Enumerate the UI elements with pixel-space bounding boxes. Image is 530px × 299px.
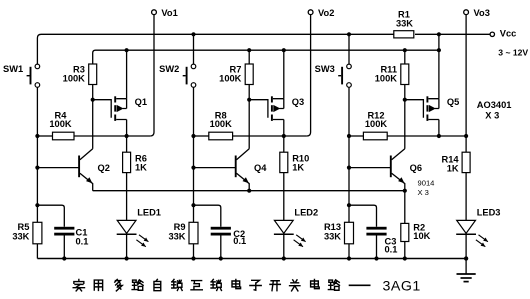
node gate Q5	[403, 98, 407, 102]
ground	[457, 259, 476, 282]
junction	[347, 203, 351, 207]
capacitor C2 0.1	[211, 227, 247, 246]
LED LED3	[456, 207, 500, 246]
resistor R14 1K	[442, 152, 471, 173]
wire mosfet source to bus2	[438, 50, 440, 98]
junction	[464, 256, 468, 260]
wire SW2 bottom column	[193, 87, 195, 222]
junction	[191, 166, 195, 170]
switch SW1	[3, 64, 40, 87]
svg-text:33K: 33K	[168, 231, 185, 241]
junction	[403, 256, 407, 260]
svg-text:1K: 1K	[292, 163, 304, 173]
capacitor C3 0.1	[366, 227, 397, 255]
wire mosfet drain to rail	[126, 120, 128, 137]
svg-text:0.1: 0.1	[76, 236, 89, 246]
wire R bottom to ground rail	[36, 244, 38, 259]
junction	[35, 203, 39, 207]
node gate Q1	[91, 98, 95, 102]
wire SW1 bottom column	[36, 87, 38, 222]
wire LED to ground rail	[465, 234, 467, 258]
svg-text:Vo2: Vo2	[318, 8, 334, 18]
wire rail to R	[126, 136, 128, 152]
svg-text:1K: 1K	[447, 163, 459, 173]
resistor R11 100K	[375, 64, 409, 85]
svg-text:Q3: Q3	[292, 97, 304, 107]
junction	[403, 189, 407, 193]
resistor R4 100K	[49, 111, 74, 140]
resistor R13 33K	[324, 222, 354, 244]
wire cap branch	[349, 205, 377, 227]
LED LED1	[117, 207, 161, 246]
svg-text:Q4: Q4	[254, 163, 267, 173]
wire mosfet source to bus2	[283, 50, 285, 98]
junction	[347, 134, 351, 138]
wire mosfet drain to rail	[283, 120, 285, 137]
resistor R5 33K	[12, 222, 42, 244]
wire cap to ground rail	[376, 236, 378, 259]
wire emitter rail to R2	[404, 191, 406, 224]
junction	[247, 189, 251, 193]
resistor R10 1K	[280, 152, 309, 172]
caption text	[73, 279, 339, 291]
wire gate column	[248, 85, 250, 149]
node gate Q3	[247, 98, 251, 102]
junction	[403, 48, 407, 52]
svg-text:Q1: Q1	[135, 97, 147, 107]
svg-text:3 ~ 12V: 3 ~ 12V	[498, 48, 528, 58]
svg-text:0.1: 0.1	[385, 245, 398, 255]
wire rail right segment	[387, 135, 466, 137]
junction	[347, 166, 351, 170]
wire gate column	[404, 85, 406, 149]
svg-text:33K: 33K	[324, 231, 341, 241]
svg-text:100K: 100K	[210, 119, 233, 129]
svg-text:SW2: SW2	[159, 64, 179, 74]
junction	[347, 32, 351, 36]
junction	[282, 48, 286, 52]
mosfet Q5 (AO3401 P-channel)	[405, 96, 460, 121]
junction	[464, 134, 468, 138]
svg-text:100K: 100K	[63, 73, 86, 83]
svg-text:33K: 33K	[12, 231, 29, 241]
svg-text:X 3: X 3	[418, 188, 429, 197]
wire rail right segment	[233, 135, 307, 137]
svg-text:Vo1: Vo1	[161, 8, 177, 18]
junction	[247, 48, 251, 52]
resistor R3 100K	[63, 64, 97, 85]
resistor R6 1K	[123, 152, 148, 172]
wire bus1-bus2 link	[438, 34, 440, 50]
junction	[191, 256, 195, 260]
wire emitter rail	[93, 190, 405, 192]
wire cap to ground rail	[63, 236, 65, 259]
terminal Vo2	[308, 8, 334, 18]
resistor R2 10K	[401, 223, 431, 242]
svg-text:Vo3: Vo3	[474, 8, 490, 18]
junction	[464, 256, 468, 260]
svg-text:SW1: SW1	[3, 64, 23, 74]
wire R to LED	[283, 173, 285, 221]
junction	[125, 134, 129, 138]
wire bus2 (Vcc rail to R3)	[93, 50, 439, 64]
wire mosfet source to bus2	[126, 50, 128, 98]
svg-text:3AG1: 3AG1	[383, 278, 421, 294]
junction	[437, 134, 441, 138]
Vcc terminal	[490, 29, 528, 58]
wire Vo3 column	[465, 15, 467, 136]
junction	[35, 166, 39, 170]
junction	[191, 134, 195, 138]
wire rail to R	[283, 136, 285, 152]
label AO3401 X 3	[477, 100, 512, 121]
wire Vo2 column	[307, 15, 311, 136]
junction	[35, 134, 39, 138]
wire R14 to LED3	[465, 173, 467, 221]
resistor R12 100K	[363, 111, 387, 140]
label 9014 X 3	[418, 178, 435, 197]
terminal Vo1	[152, 8, 178, 18]
LED LED2	[274, 207, 318, 246]
svg-text:LED3: LED3	[477, 207, 501, 217]
junction	[437, 32, 441, 36]
wire SW3 bottom column	[348, 87, 350, 222]
wire bus1 to SW3	[348, 34, 350, 64]
transistor Q4	[194, 149, 268, 191]
resistor R9 33K	[168, 222, 198, 244]
wire bus1 to SW2	[193, 34, 195, 64]
svg-text:33K: 33K	[396, 19, 413, 29]
junction	[125, 256, 129, 260]
resistor R8 100K	[209, 111, 233, 140]
svg-text:1K: 1K	[135, 163, 147, 173]
wire rail left segment	[194, 135, 209, 137]
svg-text:100K: 100K	[375, 73, 398, 83]
wire R bottom to ground rail	[193, 244, 195, 259]
wire bus1 (switch common to R1)	[37, 34, 393, 64]
resistor R7 100K	[219, 64, 253, 85]
wire R1 to Vcc	[415, 33, 490, 35]
junction	[191, 32, 195, 36]
wire Vo1 column	[150, 15, 154, 136]
junction	[282, 256, 286, 260]
svg-text:Vcc: Vcc	[500, 29, 517, 39]
wire bus2 to R11	[404, 50, 406, 64]
wire LED to ground rail	[126, 234, 128, 258]
svg-text:SW3: SW3	[315, 64, 335, 74]
wire R2 to ground rail	[404, 242, 406, 259]
wire cap branch	[37, 205, 64, 227]
svg-text:Q5: Q5	[447, 97, 459, 107]
junction	[374, 256, 378, 260]
junction	[347, 256, 351, 260]
switch SW2	[159, 64, 196, 87]
transistor Q6	[349, 149, 422, 191]
caption dash	[349, 284, 371, 286]
junction	[282, 134, 286, 138]
junction	[437, 48, 441, 52]
wire R bottom to ground rail	[348, 244, 350, 259]
junction	[62, 256, 66, 260]
mosfet Q1 (AO3401 P-channel)	[93, 96, 147, 121]
wire rail to R14	[465, 136, 467, 152]
wire mosfet drain to rail	[438, 120, 440, 137]
svg-text:Q2: Q2	[98, 163, 110, 173]
resistor R1 33K	[394, 10, 414, 38]
wire R to LED	[126, 173, 128, 221]
mosfet Q3 (AO3401 P-channel)	[249, 96, 304, 121]
wire ground rail	[37, 258, 466, 260]
capacitor C1 0.1	[54, 227, 88, 247]
wire rail right segment	[74, 135, 150, 137]
wire cap branch	[194, 205, 221, 227]
wire rail left segment	[37, 135, 52, 137]
svg-text:X 3: X 3	[485, 110, 499, 120]
svg-text:100K: 100K	[365, 119, 388, 129]
junction	[219, 256, 223, 260]
junction	[191, 203, 195, 207]
svg-text:LED1: LED1	[137, 207, 161, 217]
svg-text:10K: 10K	[413, 231, 430, 241]
junction	[125, 48, 129, 52]
wire rail left segment	[349, 135, 363, 137]
wire cap to ground rail	[220, 236, 222, 259]
svg-text:100K: 100K	[49, 119, 72, 129]
svg-text:9014: 9014	[418, 178, 435, 187]
terminal Vo3	[464, 8, 490, 18]
wire gate column	[92, 85, 94, 149]
transistor Q2	[37, 149, 110, 191]
wire bus2 to R7	[248, 50, 250, 64]
svg-text:LED2: LED2	[294, 207, 318, 217]
svg-text:Q6: Q6	[410, 163, 422, 173]
svg-text:AO3401: AO3401	[477, 100, 512, 110]
wire LED to ground rail	[283, 234, 285, 258]
svg-text:100K: 100K	[219, 73, 242, 83]
svg-text:0.1: 0.1	[233, 236, 246, 246]
switch SW3	[315, 64, 352, 87]
